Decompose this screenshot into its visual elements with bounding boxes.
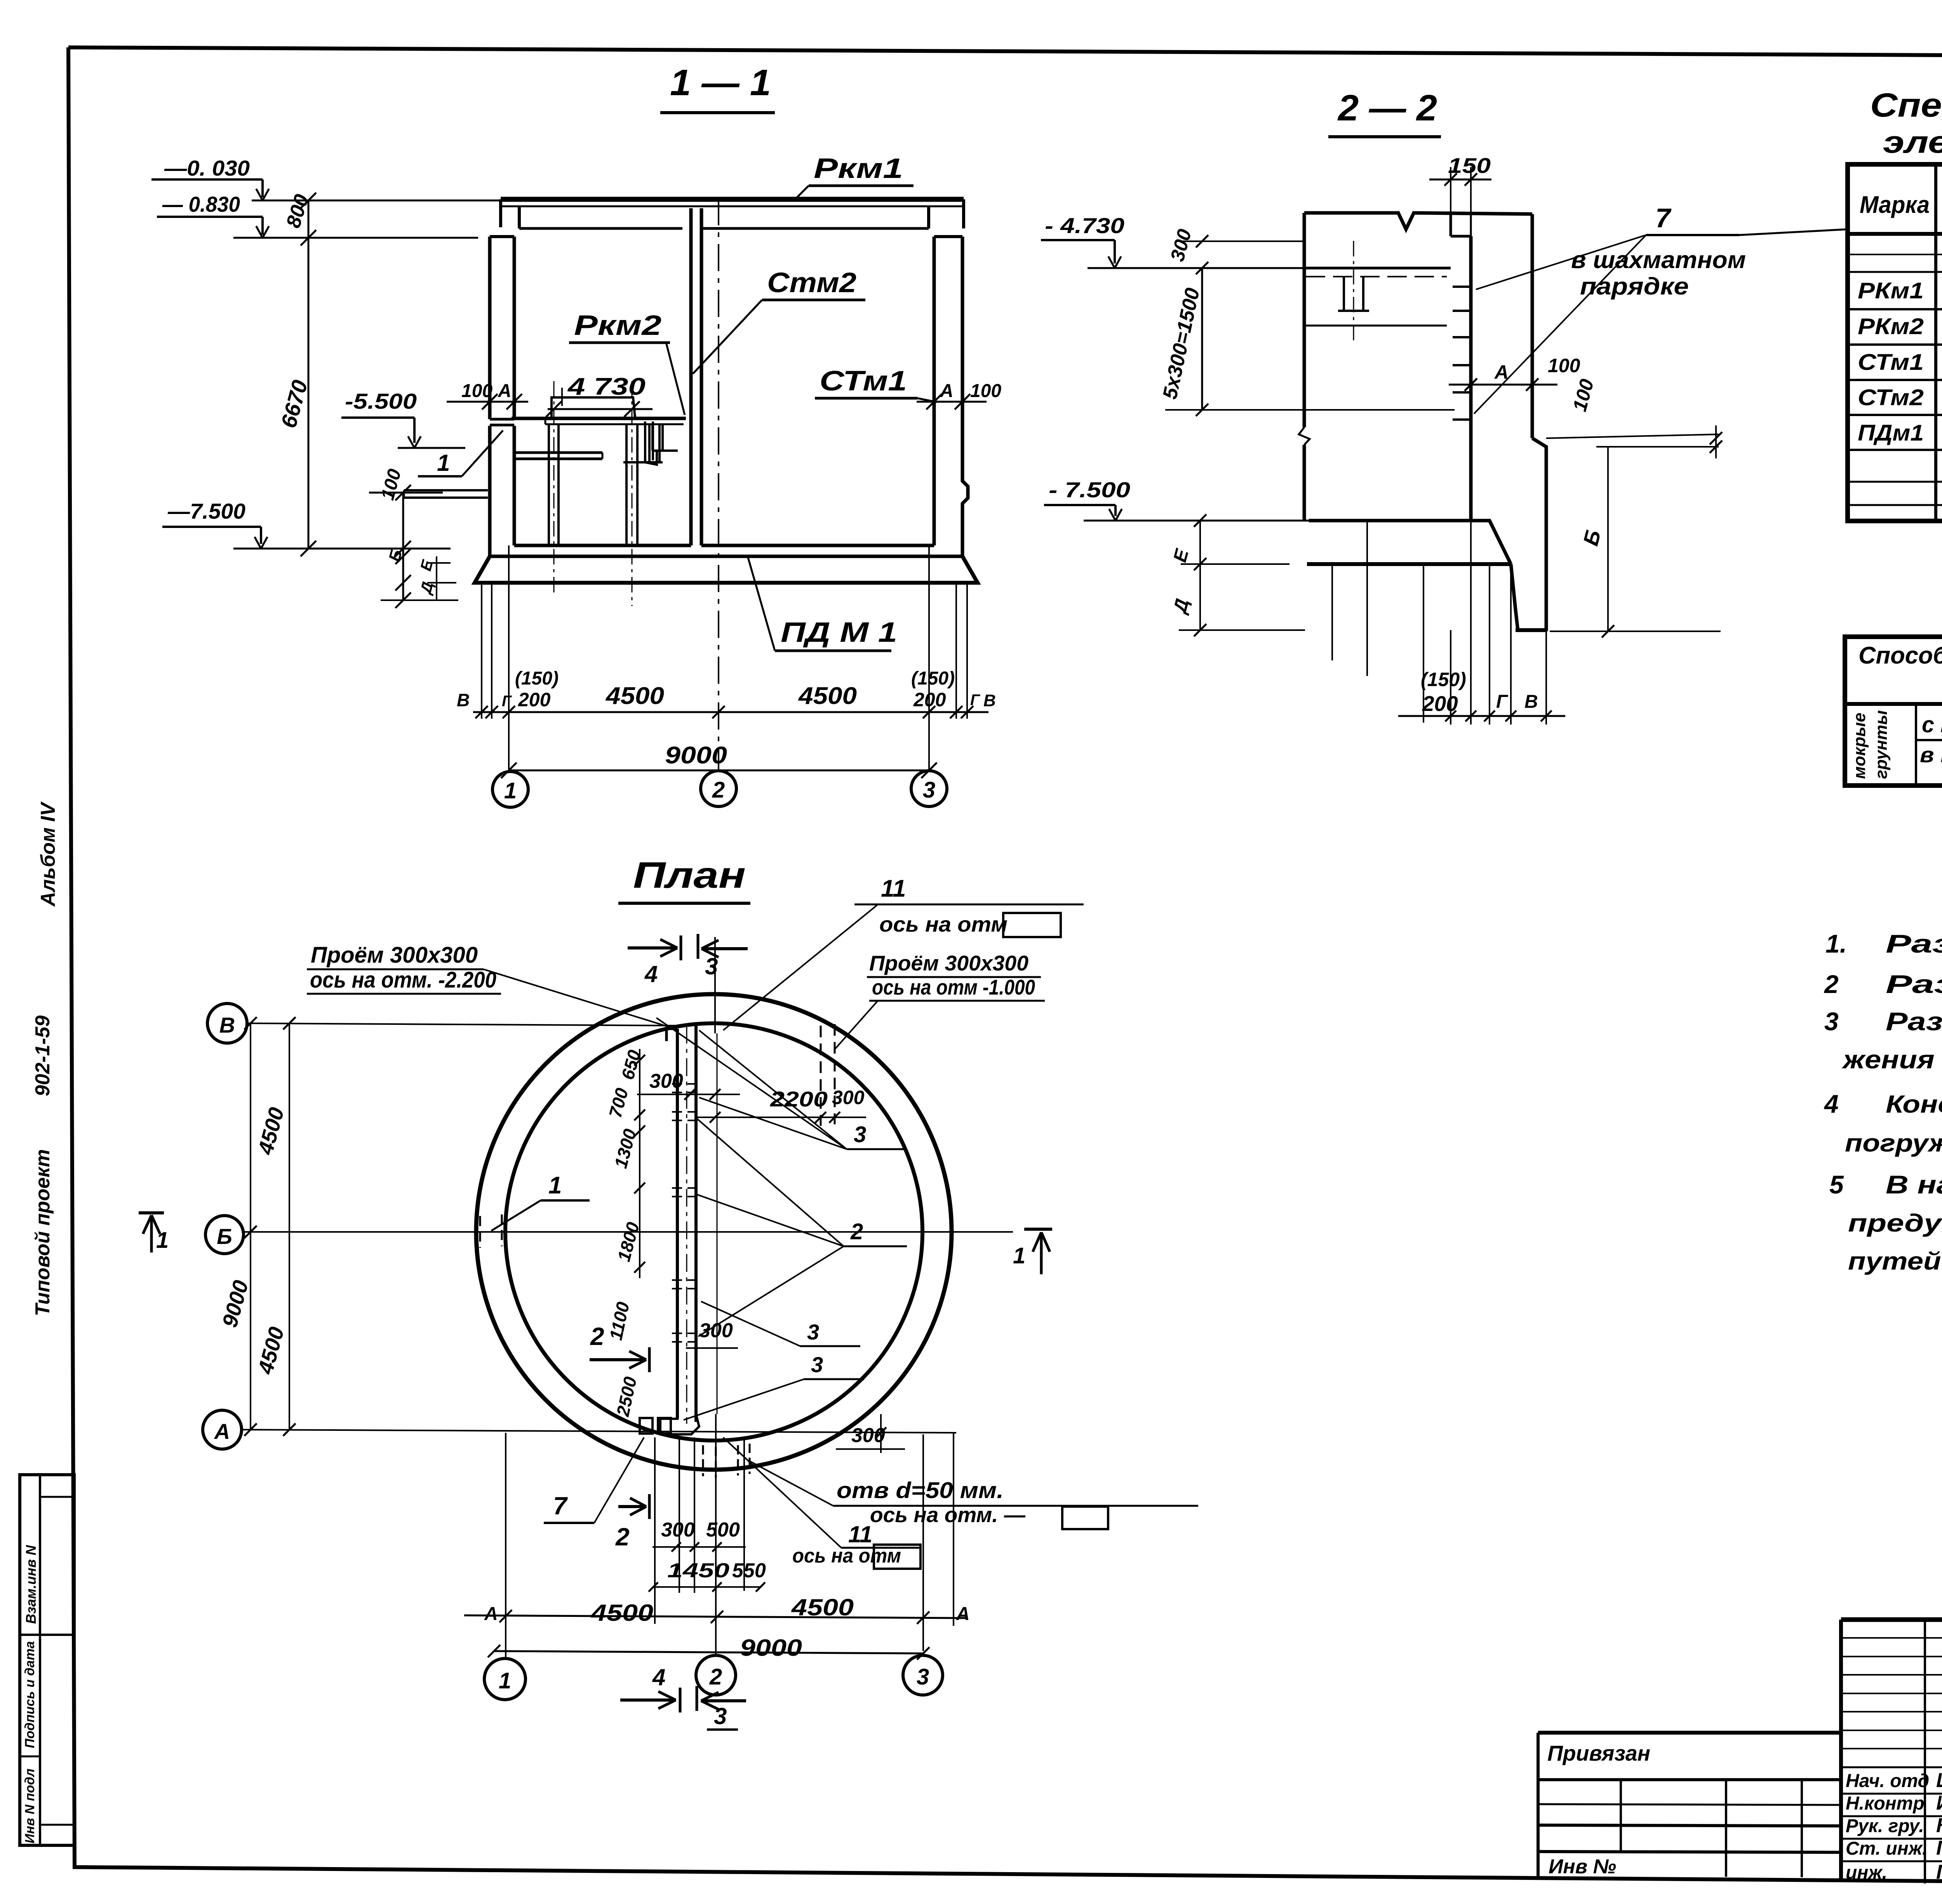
- svg-text:1: 1: [1013, 1243, 1025, 1268]
- svg-text:100: 100: [970, 381, 1001, 401]
- svg-text:1.: 1.: [1825, 929, 1847, 958]
- svg-text:План: План: [633, 855, 746, 896]
- svg-text:Размеры в скобках даны для ва: Размеры в скобках даны для варианта погр…: [1886, 1007, 1942, 1036]
- svg-text:Г: Г: [502, 693, 512, 710]
- svg-text:300: 300: [699, 1319, 733, 1342]
- svg-text:-5.500: -5.500: [345, 389, 417, 413]
- svg-text:1: 1: [548, 1172, 562, 1199]
- svg-text:2: 2: [615, 1523, 630, 1551]
- svg-text:ПД М 1: ПД М 1: [781, 617, 897, 648]
- svg-text:300: 300: [649, 1070, 683, 1092]
- size table: [1845, 637, 1942, 786]
- svg-text:Стм2: Стм2: [767, 267, 856, 298]
- roof slab top: [501, 197, 964, 202]
- svg-text:1 — 1: 1 — 1: [670, 62, 771, 103]
- wall top cap: [666, 1028, 677, 1030]
- svg-text:100: 100: [377, 467, 405, 502]
- svg-text:9000: 9000: [665, 742, 727, 769]
- svg-text:1100: 1100: [606, 1300, 633, 1342]
- svg-text:7: 7: [1655, 203, 1672, 233]
- svg-text:РКм2: РКм2: [1858, 314, 1924, 339]
- wall openings dashes: [672, 1083, 701, 1085]
- svg-text:Инв №: Инв №: [1549, 1855, 1616, 1878]
- svg-text:11: 11: [848, 1521, 872, 1547]
- svg-text:2: 2: [1824, 970, 1839, 998]
- wall outer profile right: [1531, 214, 1534, 438]
- wall left face: [1303, 213, 1306, 427]
- svg-text:500: 500: [706, 1519, 740, 1541]
- svg-text:РКм1: РКм1: [1858, 278, 1924, 303]
- vertical dim 800 / 6670: [308, 200, 310, 549]
- svg-text:2: 2: [850, 1219, 863, 1244]
- svg-text:550: 550: [732, 1559, 766, 1582]
- svg-text:Разрез 3-3. см. КЖ - 7: Разрез 3-3. см. КЖ - 7: [1886, 929, 1942, 958]
- svg-text:- 7.500: - 7.500: [1049, 477, 1130, 502]
- svg-text:4500: 4500: [253, 1324, 289, 1377]
- svg-text:А: А: [956, 1604, 970, 1624]
- svg-text:Спецификация: Спецификация: [1870, 87, 1942, 124]
- wall top edge with notch: [1304, 213, 1532, 229]
- interior platform RKm2 level: [490, 418, 514, 421]
- svg-text:4: 4: [1824, 1089, 1839, 1118]
- svg-text:В набетонке, устраиваемой: В набетонке, устраиваемой по контуру сте…: [1886, 1170, 1942, 1199]
- svg-text:2200: 2200: [770, 1087, 828, 1111]
- svg-text:200: 200: [913, 689, 946, 711]
- svg-text:300: 300: [832, 1087, 865, 1108]
- plan bottom grid bubbles: [484, 1658, 526, 1700]
- svg-text:погружения в тиксотропной ру: погружения в тиксотропной рубашке см. КЖ…: [1845, 1129, 1942, 1157]
- svg-text:мокрые: мокрые: [1850, 712, 1869, 779]
- svg-text:с водоотливом: с водоотливом: [1922, 712, 1942, 737]
- platform top box: [552, 397, 635, 417]
- svg-text:9000: 9000: [740, 1635, 802, 1661]
- svg-text:- 4.730: - 4.730: [1045, 213, 1124, 238]
- dashed opening left at B axis: [479, 1216, 481, 1248]
- svg-text:А: А: [940, 381, 954, 401]
- svg-text:200: 200: [518, 689, 551, 711]
- right wall: [934, 235, 962, 238]
- svg-text:4500: 4500: [798, 683, 857, 709]
- svg-text:3: 3: [705, 953, 718, 979]
- svg-text:грунты: грунты: [1872, 710, 1891, 779]
- svg-text:Подпись и дата: Подпись и дата: [23, 1641, 37, 1748]
- svg-text:1: 1: [499, 1668, 511, 1693]
- svg-text:1: 1: [437, 450, 450, 476]
- svg-text:Инв N подл: Инв N подл: [23, 1768, 37, 1843]
- svg-text:1300: 1300: [610, 1127, 640, 1171]
- svg-text:Глуменко: Глуменко: [1936, 1837, 1942, 1859]
- svg-text:700: 700: [605, 1086, 632, 1120]
- svg-text:Д: Д: [1169, 597, 1193, 617]
- axis lines V B A horizontal: [249, 1023, 680, 1026]
- svg-text:4: 4: [644, 961, 658, 987]
- svg-text:Г: Г: [1496, 692, 1509, 712]
- svg-text:1: 1: [504, 778, 517, 803]
- svg-text:Проём 300х300: Проём 300х300: [869, 951, 1028, 975]
- svg-text:Ркм2: Ркм2: [574, 310, 661, 341]
- svg-text:7: 7: [553, 1492, 568, 1520]
- title block: [1841, 1617, 1942, 1622]
- ladder rungs: [1453, 286, 1471, 288]
- wall inner face with 150 recess: [1450, 214, 1452, 236]
- pump pipes: [548, 424, 550, 545]
- right section arrow 1: [1024, 1228, 1052, 1231]
- central dividing wall: [676, 1029, 679, 1419]
- svg-text:4500: 4500: [253, 1104, 289, 1157]
- svg-text:300: 300: [851, 1424, 885, 1447]
- svg-text:(150): (150): [1421, 669, 1466, 690]
- svg-text:650: 650: [617, 1048, 644, 1082]
- specification table: [1848, 164, 1942, 521]
- svg-text:Иванов: Иванов: [1936, 1792, 1942, 1814]
- svg-text:300: 300: [1166, 227, 1196, 264]
- svg-text:300: 300: [661, 1519, 695, 1541]
- svg-text:(150): (150): [515, 668, 559, 689]
- svg-text:3: 3: [917, 1664, 929, 1690]
- svg-text:СТм1: СТм1: [1858, 350, 1924, 375]
- svg-text:— 0.830: — 0.830: [162, 192, 240, 216]
- svg-text:ПДм1: ПДм1: [1858, 420, 1924, 446]
- svg-text:—0. 030: —0. 030: [164, 156, 250, 180]
- section cut vertical line: [714, 937, 716, 1033]
- svg-text:4: 4: [652, 1664, 665, 1690]
- svg-text:200: 200: [1422, 692, 1458, 716]
- svg-text:3: 3: [811, 1352, 823, 1377]
- svg-text:А: А: [214, 1419, 230, 1444]
- svg-text:путей по т.п. 902-1-59 к: путей по т.п. 902-1-59 км. л.3 альбом.: [1848, 1247, 1942, 1275]
- svg-text:В: В: [1524, 692, 1538, 712]
- svg-text:Ст. инж.: Ст. инж.: [1846, 1838, 1927, 1859]
- svg-text:парядке: парядке: [1580, 273, 1689, 300]
- svg-text:4500: 4500: [605, 683, 664, 709]
- svg-text:Прядкина: Прядкина: [1936, 1861, 1942, 1883]
- svg-text:2: 2: [590, 1322, 604, 1350]
- svg-text:4 730: 4 730: [567, 373, 646, 400]
- svg-text:(150): (150): [911, 668, 955, 689]
- svg-text:Привязан: Привязан: [1547, 1741, 1650, 1765]
- svg-text:100: 100: [1548, 355, 1580, 376]
- svg-text:предусмотреть гнёзда для ус: предусмотреть гнёзда для установки подве…: [1848, 1209, 1942, 1237]
- middle wall STm2: [689, 208, 693, 545]
- svg-text:902-1-59: 902-1-59: [31, 1016, 54, 1096]
- svg-text:2: 2: [712, 777, 725, 803]
- svg-text:11: 11: [881, 875, 906, 902]
- wall bottom foot: [660, 1402, 699, 1434]
- svg-text:Е: Е: [417, 558, 437, 573]
- svg-text:3: 3: [807, 1320, 819, 1344]
- svg-text:4500: 4500: [591, 1600, 653, 1626]
- under-slab extension lines: [1331, 564, 1333, 660]
- svg-text:Альбом IV: Альбом IV: [37, 801, 59, 907]
- svg-text:ось на отм. —: ось на отм. —: [870, 1503, 1026, 1527]
- equipment centerlines: [553, 381, 555, 594]
- svg-text:6670: 6670: [276, 377, 312, 430]
- svg-text:Шейко: Шейко: [1936, 1769, 1942, 1792]
- inner wall circle: [505, 1023, 922, 1441]
- left vertical dims 4500 4500 9000: [250, 1023, 251, 1430]
- svg-text:СТм1: СТм1: [820, 366, 907, 397]
- wall dim chain rotated: [639, 1049, 640, 1278]
- svg-text:2 — 2: 2 — 2: [1337, 87, 1437, 129]
- left grid bubbles V B A: [207, 1003, 247, 1043]
- svg-text:Типовой проект: Типовой проект: [31, 1149, 54, 1316]
- opening squares at wall bottom: [640, 1418, 653, 1434]
- svg-text:100: 100: [461, 381, 492, 401]
- extension lines below slab: [481, 583, 482, 719]
- left section arrow 1: [139, 1211, 164, 1214]
- svg-text:Кунцевич: Кунцевич: [1936, 1814, 1942, 1837]
- section arrows 4 3 top: [628, 946, 677, 949]
- left wall: [490, 235, 514, 238]
- hanging bracket: [625, 424, 628, 462]
- svg-text:1800: 1800: [613, 1220, 643, 1264]
- svg-text:2500: 2500: [613, 1375, 640, 1418]
- svg-text:Способ производства: Способ производства: [1858, 642, 1942, 669]
- svg-text:Б: Б: [1578, 527, 1606, 548]
- svg-text:Марка: Марка: [1860, 192, 1930, 218]
- svg-text:А: А: [484, 1604, 498, 1624]
- svg-text:2: 2: [709, 1664, 722, 1690]
- svg-text:в шахматном: в шахматном: [1571, 247, 1746, 273]
- right opening dashed: [820, 1026, 822, 1126]
- svg-text:Разрез 4-4 см. КЖ-8 .: Разрез 4-4 см. КЖ-8 .: [1886, 970, 1942, 998]
- bottom slab PDM1: [514, 544, 691, 547]
- svg-text:5: 5: [1829, 1170, 1844, 1199]
- svg-text:1450: 1450: [667, 1559, 729, 1582]
- dim 100 lower left: [404, 489, 488, 491]
- svg-text:ось на отм: ось на отм: [879, 912, 1008, 936]
- svg-text:А: А: [498, 381, 512, 401]
- svg-text:элементов: элементов: [1883, 125, 1942, 159]
- svg-text:ось на отм -1.000: ось на отм -1.000: [872, 975, 1035, 999]
- bottom slab 2-2: [1309, 521, 1511, 564]
- svg-text:150: 150: [1448, 153, 1491, 178]
- svg-text:3: 3: [714, 1703, 727, 1729]
- svg-text:ось на отм. -2.200: ось на отм. -2.200: [310, 967, 496, 993]
- svg-text:3: 3: [1824, 1007, 1839, 1036]
- interior platform lines 2-2: [1306, 267, 1451, 270]
- svg-text:Рук. гру.: Рук. гру.: [1846, 1816, 1924, 1836]
- left margin stamp boxes: [20, 1475, 74, 1845]
- svg-text:Г: Г: [970, 692, 981, 709]
- svg-text:Конструкцию ножа опускных ко: Конструкцию ножа опускных колодцев для в…: [1886, 1090, 1942, 1118]
- small bracket right of pipes: [651, 425, 654, 451]
- svg-text:В: В: [219, 1013, 235, 1037]
- svg-text:1: 1: [156, 1228, 169, 1253]
- svg-text:Нач. отд: Нач. отд: [1846, 1771, 1929, 1791]
- svg-text:5х300=1500: 5х300=1500: [1159, 286, 1204, 401]
- svg-text:Проём 300х300: Проём 300х300: [311, 942, 478, 968]
- svg-text:В: В: [457, 690, 470, 710]
- svg-text:инж.: инж.: [1846, 1862, 1887, 1883]
- svg-text:жения в тиксотропной рубашке.: жения в тиксотропной рубашке.: [1842, 1045, 1942, 1074]
- svg-text:отв d=50 мм.: отв d=50 мм.: [837, 1478, 1004, 1503]
- drop pipe right: [644, 422, 646, 462]
- extension verticals below plan: [654, 1437, 656, 1624]
- svg-text:100: 100: [1569, 377, 1598, 414]
- outer wall circle: [476, 994, 952, 1470]
- svg-text:Взам.инв N: Взам.инв N: [23, 1545, 39, 1624]
- svg-text:Б: Б: [217, 1224, 232, 1249]
- svg-text:Е: Е: [1169, 546, 1193, 564]
- svg-text:ось на отм: ось на отм: [792, 1545, 901, 1567]
- grid bubbles 1 2 3 section 1-1: [492, 772, 528, 807]
- privyazan block: [1538, 1731, 1841, 1735]
- svg-text:3: 3: [923, 777, 935, 803]
- svg-text:Н.контр: Н.контр: [1846, 1793, 1925, 1814]
- svg-text:—7.500: —7.500: [167, 499, 245, 523]
- svg-text:9000: 9000: [218, 1277, 253, 1330]
- svg-text:3: 3: [854, 1122, 866, 1147]
- svg-text:СТм2: СТм2: [1858, 385, 1924, 410]
- small dims B E D bottom left: [402, 549, 404, 600]
- svg-text:Ркм1: Ркм1: [814, 153, 903, 184]
- svg-text:в тиксотропной: в тиксотропной: [1920, 742, 1942, 767]
- svg-text:В: В: [983, 691, 996, 710]
- bottom circle openings dashed: [702, 1445, 704, 1476]
